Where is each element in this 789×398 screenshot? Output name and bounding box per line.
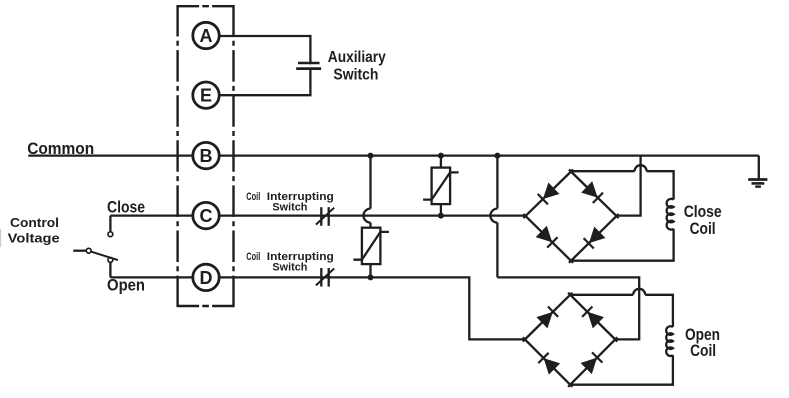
close bridge diode D3 (bottom-left) [537,227,558,248]
terminal B [193,142,219,168]
label Auxiliary Switch [328,49,386,83]
wire open-bridge top to coil (left part) [570,294,633,296]
terminal A [193,22,219,48]
varistor R2 [353,228,389,264]
svg-text:Coil: Coil [690,342,716,360]
svg-text:Auxiliary: Auxiliary [328,49,386,66]
switch lower terminal [108,258,113,263]
svg-text:Switch: Switch [272,202,307,214]
contact terminal (close) [108,232,113,237]
label Common [27,140,94,158]
close bridge diode D1 (top-left) [538,184,559,205]
ground [748,180,767,187]
open bridge diode D6 (top-right) [582,307,603,328]
wire close coil to bridge bottom [571,229,674,261]
label Open [107,276,145,294]
svg-text:Control: Control [10,215,59,230]
junction dot (Common/R2) [368,153,374,159]
svg-text:Coil: Coil [246,251,260,263]
terminal block (dashed outline) [178,5,234,307]
svg-text:Coil: Coil [246,191,260,203]
wire hop over Close line at 497 [490,209,497,223]
open coil inductor [666,326,673,356]
close bridge diamond [523,170,618,263]
wire auxiliary switch to E [206,69,310,96]
wire hop to varistor R2 [369,223,371,228]
svg-text:Close: Close [107,198,145,216]
wire close-bridge top to coil (left part) [571,170,635,172]
coil interrupting switch 2 [316,268,334,287]
label Open Coil [685,326,720,360]
wire varistor R1 to Close line [440,204,442,216]
switch blade [91,252,118,260]
close bridge diode D4 (bottom-right) [584,228,605,249]
wire control feed [73,250,86,252]
switch pivot terminal [86,248,91,253]
wire hop over Close line (R2 branch) [364,209,371,223]
svg-text:D: D [200,268,213,288]
auxiliary switch contact (top plate) [298,62,320,65]
scan artifact left edge [0,229,1,247]
terminal D [193,264,219,290]
wire Close line (node C) [110,214,525,216]
wire close-bridge top to coil (right part) [647,171,674,199]
label Coil Interrupting Switch 1 [246,191,334,214]
svg-text:E: E [200,86,212,106]
label Close Coil [684,203,722,238]
wire Common to varistor R1 [440,156,442,168]
open bridge diamond [523,293,618,387]
svg-text:Switch: Switch [272,262,307,274]
svg-text:C: C [200,206,213,226]
wire hop over branch at 639 (open) [633,289,645,295]
terminal E [193,82,219,108]
wire 497 down to Open level [496,223,498,278]
terminal C [193,202,219,228]
junction dot (Close/R1) [438,213,444,219]
label Close [107,198,145,216]
open bridge diode D8 (bottom-right) [582,352,603,373]
wire Common to hop (R2 branch) [369,156,371,209]
wire ground drop [758,156,760,180]
wire Common rail (node B) [28,154,759,156]
junction dot (Open/R2) [368,274,374,280]
open bridge diode D7 (bottom-left) [538,353,559,374]
varistor R1 [423,168,459,205]
svg-text:Coil: Coil [690,220,716,238]
wire Open line (node D) [110,277,525,339]
wire A to auxiliary switch [206,36,310,64]
wire hop over branch at 640 (close) [635,165,647,171]
auxiliary switch contact (bottom plate) [296,67,321,70]
wire Close stub to switch contact [109,216,111,232]
svg-text:Switch: Switch [333,66,378,83]
svg-text:Close: Close [684,203,722,221]
close coil inductor [667,199,674,230]
wire open coil to bridge bottom [570,355,673,385]
wire across to open-bridge right branch [497,277,639,339]
coil interrupting switch 1 [316,207,334,226]
wire Common down at 497 [496,156,498,209]
svg-text:Voltage: Voltage [8,230,60,245]
junction dot (Common/497) [494,153,500,159]
svg-text:Open: Open [107,276,145,294]
wire switch to Open line [109,263,111,278]
label Coil Interrupting Switch 2 [246,251,334,274]
svg-text:B: B [200,146,213,166]
wire Common to close-bridge right vertex [617,156,641,216]
open bridge diode D5 (top-left) [537,307,558,328]
junction dot (Common/R1) [438,153,444,159]
close bridge diode D2 (top-right) [582,182,603,203]
wire varistor R2 to Open line [369,264,371,277]
wire open-bridge top to coil (right part) [645,295,673,327]
label Control Voltage [8,215,60,246]
svg-text:A: A [200,26,213,46]
